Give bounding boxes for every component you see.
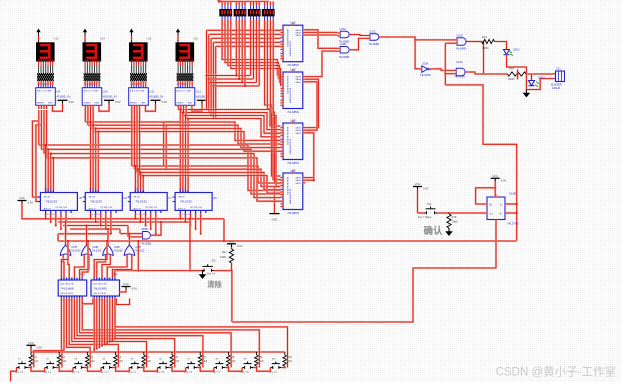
comparator U3 74LS85: [281, 118, 306, 165]
svg-text:9B U8: 9B U8: [44, 197, 51, 199]
svg-text:R14: R14: [509, 66, 514, 70]
svg-text:5.0V: 5.0V: [37, 345, 43, 349]
wire bus below counters: [45, 213, 202, 235]
OR gate U18B 74LS32D: [81, 225, 101, 258]
push button S8 Key=7: [212, 358, 228, 374]
svg-text:VCC: VCC: [123, 282, 129, 286]
watermark: [496, 365, 616, 379]
svg-text:9B U8: 9B U8: [178, 197, 185, 199]
LED2 blue: [529, 74, 546, 87]
encoder U11 74LS148: [58, 273, 86, 301]
svg-text:A B C D LT RBI: A B C D LT RBI: [37, 90, 52, 93]
push button S5 Key=4: [128, 358, 144, 374]
svg-text:74LS32D: 74LS32D: [92, 251, 102, 253]
svg-text:B2 B3 AGB AEB: B2 B3 AGB AEB: [289, 139, 292, 155]
svg-text:U15: U15: [147, 37, 152, 41]
svg-text:OA<B: OA<B: [295, 132, 301, 135]
svg-text:3 2 6 7: 3 2 6 7: [89, 188, 96, 190]
svg-text:Key = 0: Key = 0: [15, 372, 24, 374]
svg-text:UP DN CLR: UP DN CLR: [190, 207, 202, 209]
svg-text:74LS04D: 74LS04D: [420, 73, 431, 77]
7-segment display U13 with decoder U9 digit 1: [29, 29, 74, 112]
svg-text:Key = A: Key = A: [207, 272, 216, 275]
AND gate U22A 74LS08D: [453, 60, 469, 79]
svg-text:U19B: U19B: [114, 247, 120, 249]
resistor R5 1k0 keypad pull-up: [142, 352, 152, 369]
svg-text:U2B: U2B: [290, 67, 295, 71]
svg-text:VCC: VCC: [415, 182, 421, 186]
comparator U4 74LS85: [281, 168, 306, 215]
svg-text:74LS193: 74LS193: [90, 200, 102, 204]
AND gate U20B 74LS08D: [120, 221, 162, 246]
svg-text:U22A: U22A: [456, 60, 463, 64]
svg-text:3 2 6 7: 3 2 6 7: [134, 188, 141, 190]
svg-text:74LS148D: 74LS148D: [94, 286, 107, 290]
svg-text:U1B: U1B: [290, 21, 295, 25]
svg-text:VCC: VCC: [229, 240, 235, 244]
svg-text:Q: Q: [500, 205, 502, 207]
svg-text:UP DN CLR: UP DN CLR: [145, 207, 157, 209]
VCC for confirm button: [413, 182, 429, 213]
svg-text:CSDN @黄小子-工作室: CSDN @黄小子-工作室: [496, 365, 616, 379]
AND gate U21D 74LS08D: [454, 33, 470, 50]
VCC rail feeding counters: [18, 196, 225, 219]
wire to clear button: [189, 218, 191, 272]
svg-text:200Ω: 200Ω: [508, 77, 515, 81]
svg-text:74LS32D: 74LS32D: [113, 251, 123, 253]
svg-text:LED2: LED2: [538, 76, 545, 80]
7-segment display U16 with decoder U12 digit 4: [169, 29, 214, 112]
svg-text:Key = 9: Key = 9: [269, 372, 278, 374]
DIP switch J3: [248, 6, 261, 20]
AND gate U21B 74LS08D: [337, 42, 352, 59]
svg-text:GS0 D4 D6 EI: GS0 D4 D6 EI: [93, 293, 107, 295]
svg-text:U12: U12: [196, 90, 201, 94]
svg-text:A B C D: A B C D: [134, 208, 142, 211]
resistor R14 200R: [469, 66, 554, 81]
push button S7 Key=6: [184, 358, 200, 374]
svg-text:U3B: U3B: [290, 118, 295, 122]
svg-text:1D: 1D: [489, 205, 492, 207]
svg-text:UP DN CLR: UP DN CLR: [55, 207, 67, 209]
svg-text:U12: U12: [113, 273, 118, 276]
push button S3 Key=2: [71, 358, 87, 374]
svg-text:B2 B3 AGB AEB: B2 B3 AGB AEB: [289, 88, 292, 104]
resistor R16 10k: [447, 214, 458, 228]
svg-text:U6: U6: [124, 196, 128, 200]
svg-text:74LS08D: 74LS08D: [454, 75, 465, 79]
main red wire bus between decoders, counters and comparators: [32, 108, 280, 201]
svg-text:VCC: VCC: [492, 174, 498, 178]
VCC rail for keypad resistors: [27, 341, 285, 352]
svg-text:A B C D LT RBI: A B C D LT RBI: [177, 90, 192, 93]
wire bundle into comparator U1 inputs: [205, 30, 280, 119]
svg-text:OA>B: OA>B: [295, 177, 301, 180]
resistor R3 1k0 keypad pull-up: [86, 352, 96, 369]
svg-text:OA<B: OA<B: [295, 81, 301, 84]
svg-text:VCC: VCC: [19, 196, 25, 200]
svg-text:U18B: U18B: [92, 247, 98, 249]
svg-text:U21C: U21C: [369, 29, 376, 33]
svg-text:1(D) 7(D2) 9(I): 1(D) 7(D2) 9(I): [93, 284, 107, 286]
svg-text:~Q: ~Q: [499, 214, 502, 216]
svg-text:U21B: U21B: [340, 42, 347, 46]
D flip-flop U16B 74LS74D: [485, 192, 519, 226]
svg-text:OA<B: OA<B: [295, 34, 301, 37]
clear push button S12: [115, 260, 232, 278]
AND gate U21C 74LS08D: [367, 29, 382, 46]
svg-text:U9: U9: [57, 90, 61, 94]
svg-text:GND: GND: [141, 102, 146, 104]
svg-text:B2 B3 AGB AEB: B2 B3 AGB AEB: [289, 189, 292, 205]
svg-text:GND: GND: [188, 102, 193, 104]
NOT gate U23A 74LS04D: [419, 61, 433, 77]
AND gate U21A 74LS08D: [337, 27, 352, 44]
svg-text:OA=B: OA=B: [295, 31, 301, 34]
svg-text:74LS08D: 74LS08D: [339, 55, 350, 59]
svg-text:U4B: U4B: [290, 168, 295, 172]
svg-text:Key = 4: Key = 4: [128, 372, 137, 374]
resistor R8 1k0 keypad pull-up: [227, 352, 237, 369]
svg-text:GS0 D4 D6 EI: GS0 D4 D6 EI: [60, 293, 74, 295]
svg-text:BI/RBO: BI/RBO: [130, 102, 137, 104]
wires from flip-flop outputs to vertical bus: [508, 203, 518, 214]
svg-text:9B U8: 9B U8: [89, 197, 96, 199]
svg-text:1(D) 7(D2) 9(I): 1(D) 7(D2) 9(I): [60, 284, 74, 286]
svg-text:LS1: LS1: [556, 66, 561, 70]
svg-text:OA=B: OA=B: [295, 129, 301, 132]
svg-text:OA>B: OA>B: [295, 127, 301, 130]
svg-text:74LS74D: 74LS74D: [507, 222, 519, 226]
svg-text:3 2 6 7: 3 2 6 7: [44, 188, 51, 190]
svg-text:GND: GND: [272, 218, 278, 222]
svg-text:3 2 6 7: 3 2 6 7: [179, 188, 186, 190]
encoder U12 74LS148: [91, 273, 120, 301]
confirm label: [423, 225, 443, 237]
OR gate U20B 74LS32D: [124, 233, 144, 258]
svg-text:OA>B: OA>B: [295, 29, 301, 32]
svg-text:7 1 2 6 4 5 3: 7 1 2 6 4 5 3: [84, 84, 96, 86]
ground arrow below LED2: [523, 90, 531, 98]
svg-text:GND: GND: [48, 102, 53, 104]
svg-text:Key = 6: Key = 6: [184, 372, 193, 374]
resistor R6 1k0 keypad pull-up: [170, 352, 180, 369]
svg-text:A B C D LT RBI: A B C D LT RBI: [84, 90, 99, 93]
wire bus above DIP switches: [217, 0, 273, 5]
svg-text:OA<B: OA<B: [295, 182, 301, 185]
svg-text:5.0V: 5.0V: [28, 201, 34, 205]
svg-text:GND: GND: [95, 102, 100, 104]
svg-text:确认: 确认: [423, 225, 443, 237]
svg-text:BI/RBO: BI/RBO: [37, 102, 44, 104]
LED1 blue: [504, 47, 521, 58]
svg-text:OA=B: OA=B: [295, 179, 301, 182]
ground arrow below R16: [445, 228, 453, 236]
svg-text:5.0V: 5.0V: [132, 287, 138, 291]
svg-text:10kΩ: 10kΩ: [452, 220, 458, 224]
7-segment display U15 with decoder U11 digit 3: [122, 29, 167, 112]
svg-text:7 1 2 6 4 5 3: 7 1 2 6 4 5 3: [130, 84, 142, 86]
resistor R7 1k0 keypad pull-up: [198, 352, 208, 369]
svg-text:74LS85N: 74LS85N: [287, 161, 299, 165]
push button S10 Key=9: [269, 358, 285, 374]
svg-text:U23A: U23A: [422, 61, 429, 65]
svg-text:BI/RBO: BI/RBO: [84, 102, 91, 104]
wire from flip-flop down and around to clear button: [232, 222, 496, 322]
svg-text:OA>B: OA>B: [295, 76, 301, 79]
comparator U2 74LS85: [281, 67, 306, 114]
VCC for encoder U12: [120, 282, 138, 292]
svg-text:U16B: U16B: [509, 192, 516, 196]
svg-text:U5: U5: [79, 196, 83, 200]
wires from OR gates into encoder inputs: [61, 240, 139, 278]
svg-text:7 1 2 6 4 5 3: 7 1 2 6 4 5 3: [177, 84, 189, 86]
ground arrow below clear button: [199, 271, 207, 279]
resistor R13 200R: [470, 35, 507, 75]
clear label: [207, 280, 222, 289]
svg-text:U8: U8: [213, 196, 217, 200]
resistor R4 1k0 keypad pull-up: [114, 352, 124, 369]
svg-text:5.0V: 5.0V: [423, 187, 429, 191]
comparator U1 74LS85: [281, 21, 306, 68]
svg-text:S11: S11: [427, 203, 432, 206]
svg-text:74LS193: 74LS193: [180, 200, 192, 204]
svg-text:5.0V: 5.0V: [115, 100, 121, 104]
DIP switch J1: [219, 6, 232, 20]
svg-text:Key = 8: Key = 8: [241, 372, 250, 374]
svg-text:74LS32D: 74LS32D: [71, 251, 81, 253]
svg-text:A B C D LT RBI: A B C D LT RBI: [130, 90, 145, 93]
svg-text:OA=B: OA=B: [295, 78, 301, 81]
svg-text:4511BD_5V: 4511BD_5V: [57, 95, 71, 99]
counter U5 74LS193: [38, 188, 83, 216]
svg-text:U21D: U21D: [457, 33, 464, 37]
svg-text:74LS32D: 74LS32D: [135, 251, 145, 253]
svg-text:74LS08D: 74LS08D: [456, 47, 467, 51]
counter U6 74LS193: [83, 188, 128, 216]
svg-text:U7: U7: [168, 196, 172, 200]
counter U7 74LS193: [128, 188, 173, 216]
svg-text:R17: R17: [222, 250, 227, 254]
svg-text:A B C D: A B C D: [89, 208, 97, 211]
svg-text:100HZ: 100HZ: [552, 86, 560, 90]
svg-text:200Ω: 200Ω: [482, 46, 489, 50]
svg-text:清除: 清除: [207, 280, 222, 289]
wires from U21C to U21D and NOT gate: [382, 37, 454, 69]
svg-text:74LS193: 74LS193: [45, 200, 57, 204]
svg-text:4511BD_5V: 4511BD_5V: [150, 95, 164, 99]
DIP switch J4: [262, 6, 275, 20]
wire junction near R14: [517, 69, 519, 79]
cascade wires between comparators: [305, 30, 337, 181]
counter U8 74LS193: [173, 188, 218, 216]
resistor R9 1k0 keypad pull-up: [255, 352, 265, 369]
push button S6 Key=5: [156, 358, 172, 374]
VCC for flip-flop and loop to D input: [476, 174, 507, 204]
svg-text:74LS08D: 74LS08D: [141, 242, 152, 246]
svg-text:CLK: CLK: [489, 214, 494, 216]
7-segment display U14 with decoder U10 digit 2: [76, 29, 121, 112]
svg-text:Key = 1: Key = 1: [43, 372, 52, 374]
svg-text:S12: S12: [212, 260, 217, 263]
svg-text:74LS193: 74LS193: [135, 200, 147, 204]
svg-text:74LS148D: 74LS148D: [61, 286, 74, 290]
svg-text:4511BD_5V: 4511BD_5V: [103, 95, 117, 99]
svg-text:74LS85N: 74LS85N: [287, 211, 299, 215]
OR gate U19B 74LS32D: [103, 228, 123, 258]
svg-text:B2 B3 AGB AEB: B2 B3 AGB AEB: [289, 41, 292, 57]
keypad common wire chain: [11, 368, 271, 382]
confirm push button S11: [418, 203, 485, 219]
resistor R10 1k0 keypad pull-up: [283, 352, 293, 369]
svg-text:U17B: U17B: [71, 247, 77, 249]
svg-text:5.0V: 5.0V: [162, 100, 168, 104]
svg-text:U16: U16: [193, 37, 198, 41]
long wire from gates to flip-flop: [58, 234, 517, 241]
svg-text:5.0V: 5.0V: [501, 178, 507, 182]
OR gate U17B 74LS32D: [60, 221, 80, 258]
wire from NOT gate to U22A and down to flip-flop: [432, 43, 516, 241]
svg-text:R16: R16: [452, 215, 457, 219]
wire from LED1 to ground and buzzer: [507, 58, 554, 90]
wires from keypad buttons to encoders: [34, 298, 288, 367]
svg-text:BI/RBO: BI/RBO: [177, 102, 184, 104]
svg-text:74LS08D: 74LS08D: [368, 42, 379, 46]
svg-text:74LS85N: 74LS85N: [287, 110, 299, 114]
push button S9 Key=8: [241, 358, 257, 374]
svg-text:A B C D: A B C D: [44, 208, 52, 211]
svg-text:Key = Space: Key = Space: [418, 216, 432, 219]
svg-text:U11: U11: [150, 90, 155, 94]
svg-text:A B C D: A B C D: [178, 208, 186, 211]
DIP switch J2: [234, 6, 247, 20]
svg-text:Key = 3: Key = 3: [100, 372, 109, 374]
svg-text:Key = 7: Key = 7: [212, 372, 221, 374]
resistor R1 1k0 keypad pull-up: [29, 352, 39, 369]
buzzer LS1: [551, 66, 565, 90]
svg-text:5.0V: 5.0V: [69, 100, 75, 104]
svg-text:VCC: VCC: [28, 341, 34, 345]
svg-text:5.0V: 5.0V: [237, 244, 243, 248]
svg-text:UP DN CLR: UP DN CLR: [100, 207, 112, 209]
resistor R17 10k with VCC: [220, 240, 243, 323]
wires from U21A/U21B to U21C: [352, 35, 367, 50]
push button S4 Key=3: [100, 358, 116, 374]
svg-text:9B U8: 9B U8: [134, 197, 141, 199]
svg-text:74LS85N: 74LS85N: [287, 63, 299, 67]
svg-text:U13: U13: [54, 37, 59, 41]
svg-text:U14: U14: [100, 37, 105, 41]
svg-text:BUZZER: BUZZER: [551, 83, 562, 87]
svg-text:Key = 2: Key = 2: [71, 372, 80, 374]
svg-text:U20B: U20B: [141, 227, 148, 231]
svg-text:LED1: LED1: [513, 48, 520, 52]
svg-text:10kΩ: 10kΩ: [220, 255, 226, 259]
ground bar below comparator U4: [270, 187, 280, 222]
svg-text:R13: R13: [482, 35, 487, 39]
wire from counter rail down: [223, 219, 225, 242]
resistor R2 1k0 keypad pull-up: [57, 352, 67, 369]
svg-text:7 1 2 6 4 5 3: 7 1 2 6 4 5 3: [37, 84, 49, 86]
wires from DIP switches down to comparator B inputs: [207, 20, 281, 187]
svg-text:Key = 5: Key = 5: [156, 372, 165, 374]
push button S2 Key=1: [43, 358, 59, 374]
push button S1 Key=0: [15, 358, 31, 374]
svg-text:U21A: U21A: [340, 27, 347, 31]
svg-text:U10: U10: [103, 90, 108, 94]
